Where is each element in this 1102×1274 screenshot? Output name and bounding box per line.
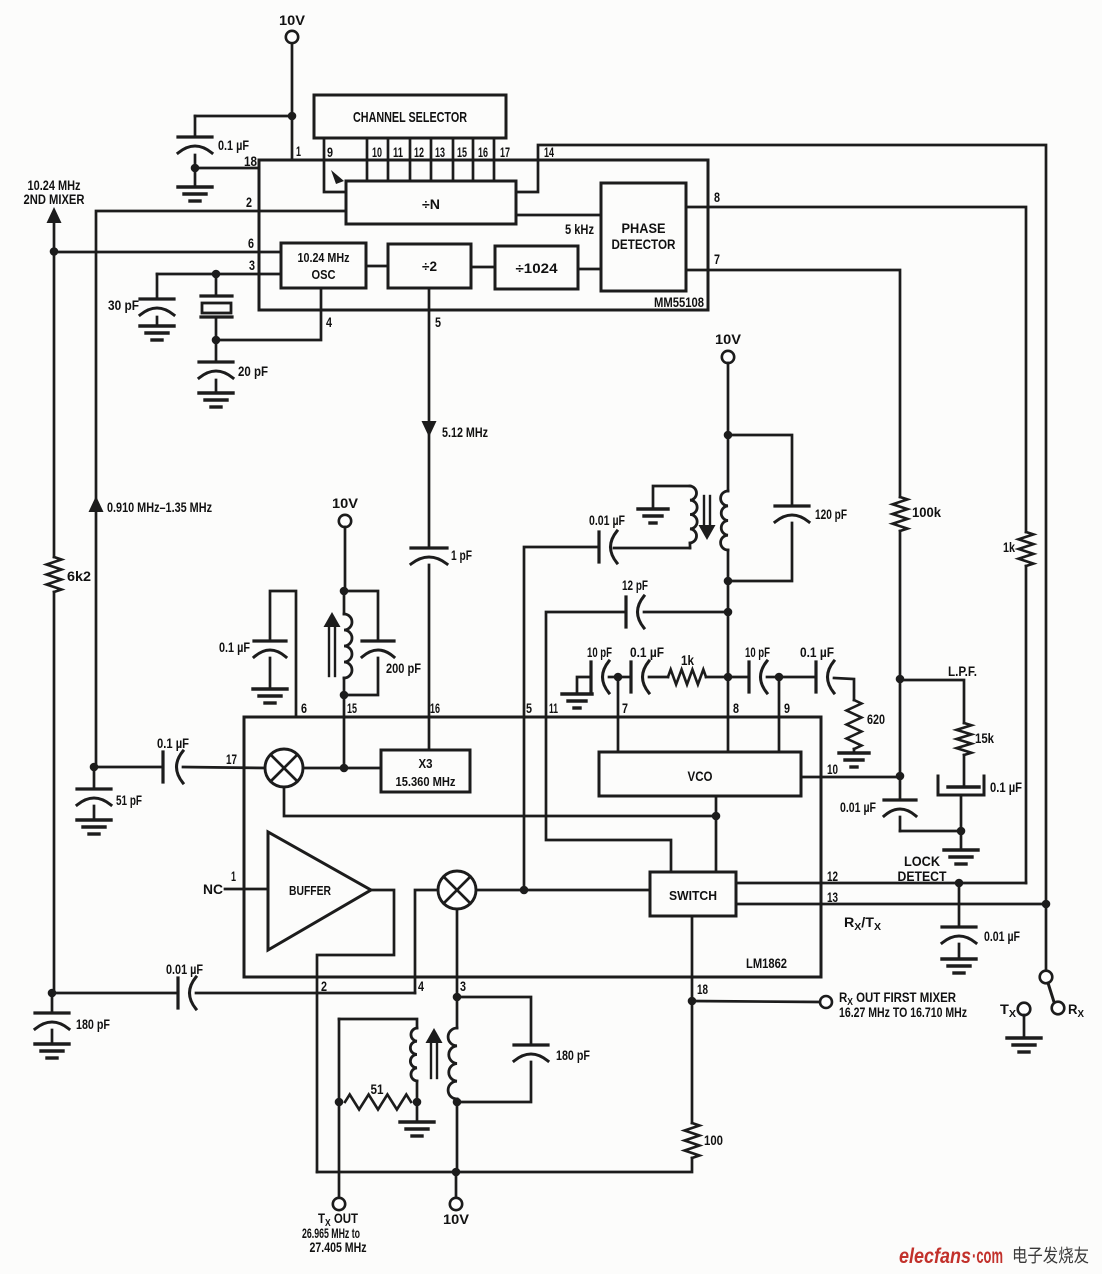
svg-text:27.405 MHz: 27.405 MHz — [310, 1240, 367, 1255]
node pin 15 / mixer wire — [340, 764, 349, 773]
svg-text:0.01 µF: 0.01 µF — [840, 800, 876, 815]
svg-text:8: 8 — [733, 700, 739, 716]
label RX OUT FIRST MIXER — [839, 990, 956, 1008]
label RX/TX — [844, 915, 881, 933]
svg-text:0.1 µF: 0.1 µF — [800, 645, 834, 660]
svg-text:7: 7 — [622, 700, 628, 716]
wire switch pivot stem — [1045, 904, 1048, 971]
wire 1k to pin8 node — [706, 676, 728, 679]
node mixer2 out / pin 5 — [520, 886, 529, 895]
wire divide-by-N output to phase detector — [516, 214, 601, 217]
svg-text:X3: X3 — [419, 756, 433, 771]
wire pin 7 net (phase detector to 100k) — [686, 270, 900, 497]
label LM1862 — [746, 955, 787, 971]
svg-text:BUFFER: BUFFER — [289, 884, 331, 898]
wire 10pF to pin9 node — [767, 676, 779, 679]
svg-text:30 pF: 30 pF — [108, 298, 139, 313]
block divide-by-N — [346, 181, 516, 224]
wire mixer1 output to VCO bottom node — [284, 787, 716, 816]
wire pin 18 to 100 resistor — [691, 1001, 694, 1123]
pin label 8 (MM55108) — [714, 189, 720, 205]
label 5.12 MHz — [442, 425, 488, 440]
label LOCK DETECT — [898, 854, 948, 884]
ground (pin1 bypass) — [178, 168, 212, 201]
node VCO bottom / mixer1 line — [712, 812, 721, 821]
svg-text:7: 7 — [714, 251, 720, 267]
svg-text:6: 6 — [248, 235, 254, 251]
node 51 right / primary — [413, 1098, 422, 1107]
block PHASE DETECTOR — [601, 183, 686, 291]
wire divide-by-2 to divide-by-1024 — [471, 266, 495, 269]
wire pin 6 (MM55108 to 2nd mixer node) — [54, 251, 281, 254]
svg-text:PHASE: PHASE — [622, 221, 666, 236]
block CHANNEL SELECTOR — [314, 95, 506, 138]
svg-text:NC: NC — [203, 882, 223, 897]
block 10.24 MHz OSC — [281, 243, 366, 288]
node coil bottom (mid) — [340, 691, 349, 700]
power terminal 10V (tank) — [715, 331, 742, 363]
mixer U1b (2nd, Tx) — [438, 871, 476, 909]
capacitor 0.1uF (pin 6) — [219, 640, 286, 657]
wire pin 18 (switch down) — [691, 916, 694, 1001]
wire 10V to tank top — [727, 363, 730, 435]
node lock detect — [955, 879, 964, 888]
block divide-by-1024 — [495, 246, 578, 289]
wire channel selector pin 17 — [493, 138, 496, 181]
svg-text:9: 9 — [327, 144, 333, 160]
svg-text:11: 11 — [393, 144, 403, 160]
wire 30pF branch — [156, 274, 159, 299]
mixer U1a (1st, pin 17) — [265, 749, 303, 787]
wire 10V to pin1 node — [291, 44, 294, 117]
tuning arrow (Tx tank) — [426, 1028, 443, 1078]
svg-text:100: 100 — [704, 1133, 723, 1148]
capacitor 51 pF — [77, 767, 142, 808]
pin label 7 (LM1862) — [622, 700, 628, 716]
svg-text:L.P.F.: L.P.F. — [948, 664, 977, 679]
svg-text:TX: TX — [1000, 1002, 1016, 1020]
svg-text:·com: ·com — [972, 1244, 1003, 1268]
ground (10 pF input) — [562, 677, 592, 708]
svg-text:2: 2 — [321, 978, 327, 994]
block X3 15.360 MHz — [381, 750, 470, 792]
svg-text:0.910 MHz–1.35 MHz: 0.910 MHz–1.35 MHz — [107, 500, 212, 515]
wire pin 5 inside to mixer2 output — [523, 717, 526, 890]
ground (51 pF) — [77, 806, 111, 834]
svg-text:16: 16 — [430, 700, 440, 716]
svg-text:÷2: ÷2 — [422, 259, 437, 274]
ground (lock cap) — [942, 944, 976, 973]
pin label 17 — [500, 144, 510, 160]
crystal 10.24 MHz — [201, 296, 232, 317]
svg-text:RX/TX: RX/TX — [844, 915, 881, 933]
svg-text:10.24 MHz: 10.24 MHz — [298, 250, 350, 265]
svg-text:15: 15 — [457, 144, 467, 160]
svg-text:8: 8 — [714, 189, 720, 205]
ground (620) — [839, 749, 869, 767]
svg-text:11: 11 — [549, 700, 558, 716]
svg-text:5.12 MHz: 5.12 MHz — [442, 425, 488, 440]
svg-text:15: 15 — [347, 700, 357, 716]
flow arrow 5.12 MHz — [422, 421, 437, 437]
svg-text:120 pF: 120 pF — [815, 507, 847, 522]
wire coupling cap to pin 17 / mixer — [183, 767, 266, 768]
pin label 12 (LM1862) — [827, 868, 838, 884]
label 10.24 MHz 2ND MIXER — [24, 178, 85, 207]
svg-text:0.1 µF: 0.1 µF — [218, 138, 249, 153]
svg-text:12: 12 — [414, 144, 424, 160]
svg-text:2: 2 — [246, 194, 252, 210]
inductor Tx tank primary — [339, 1019, 417, 1102]
wire 0.910 rail to coupling cap — [96, 766, 163, 769]
wire pin 9 into VCO — [778, 677, 781, 752]
wire pin 10 (VCO to 100k) — [801, 776, 900, 779]
pin label 15 (LM1862) — [347, 700, 357, 716]
label 5 kHz — [565, 222, 594, 237]
wire pin 13 (switch to Rx/Tx line) — [736, 903, 1045, 906]
svg-text:DETECT: DETECT — [898, 869, 948, 884]
wire channel selector pin 12 — [409, 138, 412, 181]
pin label 1 (LM1862) — [231, 868, 236, 884]
svg-text:9: 9 — [784, 700, 790, 716]
svg-text:17: 17 — [500, 144, 510, 160]
inductor tank secondary — [721, 435, 728, 581]
svg-text:12 pF: 12 pF — [622, 578, 648, 593]
contact Tx — [1018, 1003, 1031, 1016]
pin label 10 — [372, 144, 382, 160]
wire crystal top stem — [215, 274, 218, 296]
tuning arrow (pin 15 coil) — [324, 612, 341, 676]
node tank bottom — [724, 577, 733, 586]
wire channel selector pin 9 — [324, 138, 346, 192]
svg-text:620: 620 — [867, 712, 885, 727]
svg-text:LM1862: LM1862 — [746, 955, 787, 971]
ground (51) — [400, 1102, 434, 1136]
ground (30 pF) — [140, 317, 174, 340]
pin label 17 (LM1862) — [226, 751, 237, 767]
wire pin 6 branch (LM1862) — [270, 591, 296, 717]
pin label 15 — [457, 144, 467, 160]
svg-text:180 pF: 180 pF — [556, 1048, 590, 1063]
wire channel selector pin 10 — [366, 138, 369, 181]
pin label 4 (MM55108) — [326, 314, 332, 330]
wire pin 2 (MM55108 to LM1862 area) — [96, 211, 346, 767]
svg-text:5: 5 — [526, 700, 532, 716]
capacitor 0.01uF (pin 2 coupling) — [166, 962, 203, 1009]
pin label 18 (LM1862) — [697, 981, 708, 997]
node pin 3 / crystal — [212, 270, 221, 279]
svg-text:÷N: ÷N — [422, 196, 440, 212]
wire left rail lower — [53, 592, 56, 993]
svg-text:12: 12 — [827, 868, 838, 884]
capacitor 200 pF — [344, 591, 421, 695]
svg-text:6: 6 — [301, 700, 307, 716]
node pin 18 junction — [688, 997, 697, 1006]
program arrowhead into divide-by-N — [331, 170, 344, 184]
label L.P.F. — [948, 664, 977, 679]
svg-text:10V: 10V — [443, 1211, 470, 1227]
svg-text:1k: 1k — [681, 653, 694, 668]
pin label 11 (LM1862) — [549, 700, 558, 716]
svg-text:0.1 µF: 0.1 µF — [157, 736, 189, 751]
svg-text:1: 1 — [231, 868, 236, 884]
wire pin 18 to Rx out terminal — [692, 1001, 820, 1002]
wire 10V mid stem — [344, 527, 347, 591]
svg-text:5 kHz: 5 kHz — [565, 222, 594, 237]
pin label 16 (LM1862) — [430, 700, 440, 716]
svg-text:10V: 10V — [715, 331, 742, 347]
wire 12pF to tank line — [644, 611, 728, 614]
label MM55108 — [654, 294, 704, 310]
svg-text:÷1024: ÷1024 — [516, 261, 559, 276]
contact Rx — [1052, 1002, 1065, 1015]
wire LPF tap to 15k — [900, 680, 964, 723]
buffer amplifier — [268, 832, 371, 950]
wire pin 7 into VCO — [617, 677, 620, 752]
wire pin 3 (MM55108 to crystal) — [157, 273, 281, 276]
wire Tx out line — [338, 1019, 341, 1198]
svg-text:51: 51 — [371, 1082, 384, 1097]
inductor Tx tank secondary — [448, 997, 457, 1172]
wire VCO bottom pin — [715, 796, 718, 872]
resistor 15k — [957, 723, 995, 755]
wire NC to pin 1 — [225, 888, 268, 891]
svg-text:0.01 µF: 0.01 µF — [166, 962, 203, 977]
svg-text:4: 4 — [418, 978, 424, 994]
ground (pin 6 cap) — [253, 658, 287, 703]
wire OSC to divide-by-2 — [366, 265, 388, 268]
svg-text:电子发烧友: 电子发烧友 — [1012, 1246, 1089, 1266]
svg-text:1 pF: 1 pF — [451, 548, 472, 563]
capacitor 10 pF (pin 9) — [728, 645, 770, 693]
pin label 2 (LM1862) — [321, 978, 327, 994]
wire 100k to LPF node — [899, 531, 902, 679]
svg-text:1: 1 — [296, 143, 301, 159]
svg-text:18: 18 — [697, 981, 708, 997]
node LPF ground junction — [957, 827, 966, 836]
svg-text:3: 3 — [460, 978, 466, 994]
svg-text:26.965 MHz to: 26.965 MHz to — [302, 1226, 360, 1241]
wire channel selector pin 16 — [472, 138, 475, 181]
resistor 100k — [893, 497, 942, 531]
inductor (pin 15 tuned) — [344, 591, 352, 695]
wire junction to 0.1uF cap — [195, 115, 292, 118]
svg-text:CHANNEL SELECTOR: CHANNEL SELECTOR — [353, 109, 467, 126]
ground (Tx contact) — [1007, 1015, 1041, 1052]
svg-text:0.01 µF: 0.01 µF — [984, 929, 1020, 944]
terminal Rx out first mixer — [820, 996, 832, 1008]
capacitor 0.1uF (pin 17 coupling) — [157, 736, 189, 783]
pin label 9 — [327, 144, 333, 160]
svg-text:200 pF: 200 pF — [386, 661, 421, 676]
pin label 13 — [435, 144, 445, 160]
terminal Tx out — [333, 1198, 345, 1210]
node pin 7 (LM1862) — [614, 673, 623, 682]
wire pin 5 branch up (LM1862) — [524, 547, 599, 717]
logo elecfans.com — [899, 1244, 1089, 1268]
capacitor 0.1uF (pin1 bypass) — [178, 116, 249, 168]
resistor 51 — [345, 1082, 411, 1110]
svg-text:15k: 15k — [975, 731, 994, 746]
pin label 6 (LM1862) — [301, 700, 307, 716]
wire 10pF to pin7 node — [609, 676, 618, 679]
label 27.405 MHz — [310, 1240, 367, 1255]
node 180pF / 0.01uF — [48, 989, 57, 998]
label 26.965 MHz to — [302, 1226, 360, 1241]
svg-text:4: 4 — [326, 314, 332, 330]
wire pin 14 net (divide-by-N to Rx switch) — [516, 145, 1046, 904]
svg-text:6k2: 6k2 — [67, 569, 91, 584]
pin label 6 (MM55108) — [248, 235, 254, 251]
wire pin 1 into MM55108 — [291, 116, 294, 160]
block divide-by-2 — [388, 244, 471, 288]
wire mixer2 to pin 3 — [456, 909, 459, 997]
wire left rail upper — [53, 220, 56, 251]
label NC — [203, 882, 223, 897]
node tank top — [724, 431, 733, 440]
pin label 18 (MM55108) — [244, 153, 257, 169]
ground (180 pF left) — [35, 1030, 69, 1058]
svg-text:elecfans: elecfans — [899, 1244, 971, 1268]
power terminal 10V (mid) — [332, 495, 359, 527]
wire pin 11 inside to switch — [546, 717, 671, 872]
svg-text:DETECTOR: DETECTOR — [612, 237, 676, 252]
wire channel selector pin 11 — [387, 138, 390, 181]
wire buffer output loop to pin 2 — [317, 890, 394, 1172]
capacitor 0.1uF feedthrough (LPF) — [938, 755, 1022, 795]
IC MM55108 outline — [259, 160, 708, 310]
svg-text:RX: RX — [1068, 1002, 1084, 1020]
wire tank bottom to 12pF node — [727, 581, 730, 612]
svg-text:10V: 10V — [332, 495, 359, 511]
capacitor 10 pF (pin 7) — [587, 645, 612, 693]
wire mixer2 left to pin 4 — [415, 890, 438, 993]
svg-text:17: 17 — [226, 751, 237, 767]
svg-text:0.1 µF: 0.1 µF — [630, 645, 664, 660]
pin label 3 (MM55108) — [249, 257, 255, 273]
pin label 1 (MM55108) — [296, 143, 301, 159]
svg-text:LOCK: LOCK — [904, 854, 940, 869]
wire crystal bottom stem — [215, 317, 218, 340]
label TX (contact) — [1000, 1002, 1016, 1020]
pin label 4 (LM1862) — [418, 978, 424, 994]
wire left rail middle — [53, 252, 56, 557]
label 0.910 MHz-1.35 MHz — [107, 500, 212, 515]
node pin1/bypass junction — [288, 112, 297, 121]
wire 180pF node to coupling cap — [52, 992, 178, 995]
capacitor 20 pF — [199, 340, 268, 379]
wire LPF cap to ground node — [960, 795, 963, 831]
wire channel selector pin 15 — [452, 138, 455, 181]
inductor tank primary (grounded) — [653, 486, 697, 543]
svg-text:15.360 MHz: 15.360 MHz — [396, 774, 456, 789]
wire LPF node to pin10 junction — [899, 679, 902, 776]
pin label 8 (LM1862) — [733, 700, 739, 716]
label 16.27 MHz TO 16.710 MHz — [839, 1005, 967, 1020]
capacitor 0.1uF (pin 9) — [779, 645, 834, 693]
svg-text:100k: 100k — [912, 505, 941, 520]
pin label 12 — [414, 144, 424, 160]
node Tx tank bottom — [453, 1098, 462, 1107]
pin label 10 (LM1862) — [827, 761, 838, 777]
wire crystal node to pin 4 — [216, 288, 321, 340]
label TX OUT — [318, 1211, 359, 1229]
wire pin 18 (MM55108) — [195, 167, 259, 170]
capacitor 0.1uF (pin 7) — [618, 645, 664, 693]
svg-text:2ND MIXER: 2ND MIXER — [24, 192, 85, 207]
wire mixer1 to X3 — [303, 767, 381, 770]
svg-text:13: 13 — [827, 889, 838, 905]
capacitor 180 pF (left) — [35, 993, 110, 1032]
node pin 3 / Tx tank top — [453, 993, 462, 1002]
pin label 11 — [393, 144, 403, 160]
power terminal 10V (top) — [279, 12, 306, 43]
svg-text:10: 10 — [827, 761, 838, 777]
wire bottom bus — [317, 1158, 692, 1172]
wire pin 12 (switch to lock line) — [736, 882, 1026, 885]
resistor 1k (lock line) — [1003, 532, 1034, 566]
capacitor 30 pF — [108, 298, 174, 315]
svg-text:10.24 MHz: 10.24 MHz — [28, 178, 81, 193]
wire mixer2 output to switch — [476, 889, 650, 892]
svg-text:16: 16 — [478, 144, 488, 160]
switch lever — [1048, 983, 1054, 1002]
node bypass/ground junction — [191, 164, 200, 173]
svg-text:0.01 µF: 0.01 µF — [589, 513, 625, 528]
pin label 16 — [478, 144, 488, 160]
resistor 6k2 — [47, 557, 92, 592]
block VCO — [599, 752, 801, 796]
wire coupling cap to pin 4 line — [196, 992, 415, 995]
tuning arrow (VCO tank) — [699, 496, 716, 540]
node pin 13 / pin 14 — [1042, 900, 1051, 909]
wire pin 11 branch up (LM1862) — [546, 612, 626, 717]
wire pin 8 into VCO — [727, 677, 730, 752]
pin label 5 (MM55108) — [435, 314, 441, 330]
svg-text:VCO: VCO — [688, 769, 713, 784]
node crystal / 20pF / pin 4 — [212, 336, 221, 345]
IC LM1862 outline — [244, 717, 821, 977]
wire 0.01uF to ground node — [900, 817, 961, 831]
node 51 left / Tx line — [335, 1098, 344, 1107]
node pin 9 (LM1862) — [775, 673, 784, 682]
pin label 9 (LM1862) — [784, 700, 790, 716]
svg-text:20 pF: 20 pF — [238, 364, 268, 379]
svg-text:10 pF: 10 pF — [587, 645, 612, 660]
svg-text:51 pF: 51 pF — [116, 793, 142, 808]
node pin 8 (LM1862) — [724, 673, 733, 682]
power terminal 10V (bottom) — [443, 1172, 470, 1227]
wire 1pF to pin 16 (LM1862) — [428, 565, 431, 750]
node pin6 tap — [50, 247, 59, 256]
pin label 14 — [544, 144, 554, 160]
signal arrow to 2nd mixer — [47, 207, 62, 223]
svg-text:MM55108: MM55108 — [654, 294, 704, 310]
node 12 pF junction — [724, 608, 733, 617]
svg-text:5: 5 — [435, 314, 441, 330]
resistor 100 — [685, 1123, 724, 1158]
wire divide-by-1024 to phase detector — [578, 268, 601, 271]
svg-text:SWITCH: SWITCH — [669, 889, 717, 903]
node pin10/100k junction — [896, 772, 905, 781]
capacitor 120 pF — [728, 435, 847, 581]
node 51pF tap — [90, 763, 99, 772]
svg-text:OSC: OSC — [312, 267, 337, 282]
switch pivot contact — [1040, 971, 1053, 984]
ground (LPF) — [944, 831, 978, 864]
svg-text:1k: 1k — [1003, 540, 1015, 555]
svg-text:3: 3 — [249, 257, 255, 273]
